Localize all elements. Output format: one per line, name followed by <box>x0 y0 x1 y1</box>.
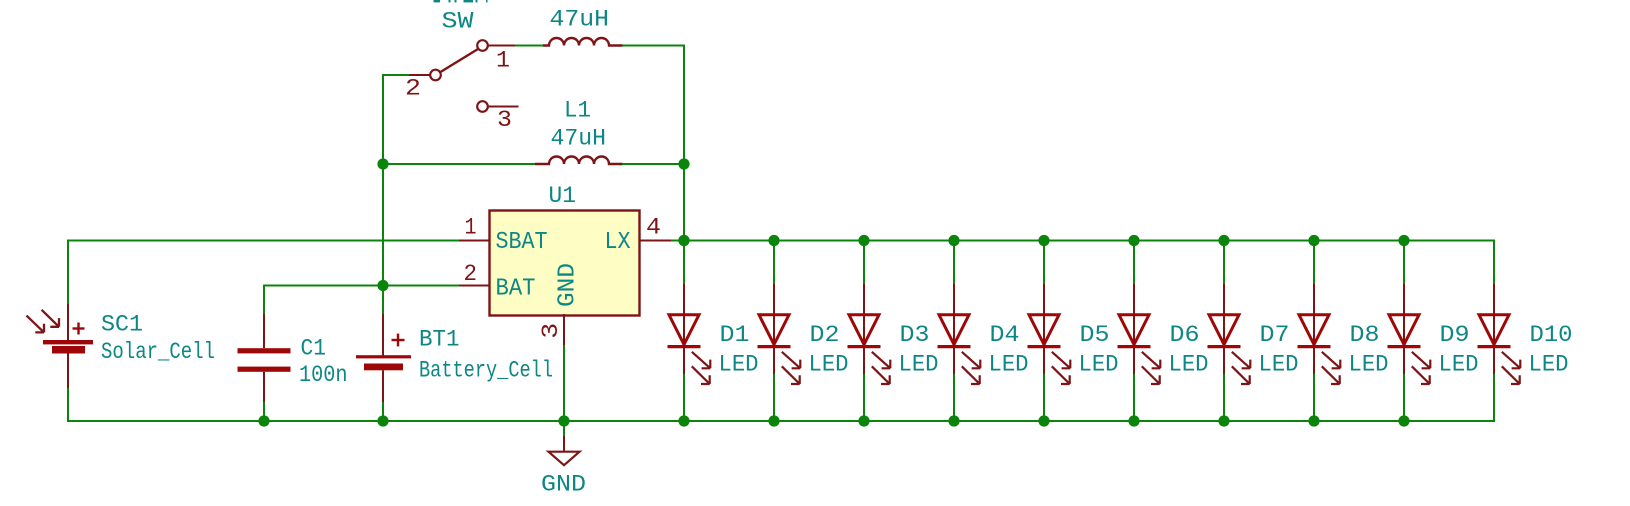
junction at D6 bottom <box>1128 415 1139 426</box>
junction at D9 top <box>1398 235 1409 246</box>
switch SW lever <box>440 49 478 72</box>
svg-text:D3: D3 <box>900 322 930 349</box>
svg-text:1: 1 <box>465 214 477 241</box>
junction at D8 top <box>1308 235 1319 246</box>
svg-text:D6: D6 <box>1170 322 1200 349</box>
svg-text:Solar_Cell: Solar_Cell <box>101 339 215 366</box>
junction at D9 bottom <box>1398 415 1409 426</box>
junction at GND column (564,421) <box>558 415 569 426</box>
wire SW pin1 to top inductor <box>515 45 544 47</box>
switch SW pin 1 stub <box>488 45 517 47</box>
junction at D1 top <box>678 235 689 246</box>
junction at D7 top <box>1218 235 1229 246</box>
wire LED D2 column bottom <box>773 372 775 422</box>
svg-text:BT1: BT1 <box>419 327 460 354</box>
svg-text:LED: LED <box>719 352 759 379</box>
label SW library name (cut off at top) <box>434 0 488 2</box>
svg-text:2: 2 <box>405 75 421 102</box>
wire LED D4 column bottom <box>953 372 955 422</box>
switch SW pin 2 stub <box>409 74 431 76</box>
svg-text:LED: LED <box>1349 352 1389 379</box>
LED D1 <box>668 284 711 384</box>
battery BT1 <box>356 314 411 403</box>
wire LED D7 column bottom <box>1223 372 1225 422</box>
junction at D4 bottom <box>948 415 959 426</box>
wire SBAT (solar cell to U1 pin1) <box>68 240 459 242</box>
wire C1 top (BAT wire down) <box>263 285 265 317</box>
svg-text:D5: D5 <box>1080 322 1110 349</box>
LED D4 <box>938 284 981 384</box>
wire GND stub below rail <box>563 421 565 438</box>
svg-text:SC1: SC1 <box>101 312 143 339</box>
svg-text:D10: D10 <box>1530 322 1573 349</box>
svg-text:Battery_Cell: Battery_Cell <box>419 358 553 385</box>
switch SW pin 3 stub <box>488 106 519 108</box>
wire LED D9 column bottom <box>1403 372 1405 422</box>
wire x=383 vertical (SW pin2 down to BT1) <box>382 74 384 315</box>
inductor L1 47uH <box>535 157 623 164</box>
junction at D6 top <box>1128 235 1139 246</box>
wire U1 pin3 to bottom rail <box>563 345 565 422</box>
wire L1 rail left <box>383 163 536 165</box>
svg-text:L1: L1 <box>564 97 591 124</box>
inductor L2 (top, 47uH) <box>543 38 623 45</box>
wire top inductor to right corner <box>622 45 685 47</box>
svg-text:2: 2 <box>464 261 478 288</box>
wire right edge bottom <box>1493 372 1495 422</box>
wire LED D3 column top <box>863 241 865 287</box>
LED D5 <box>1028 284 1071 384</box>
U1 pin 1 stub (SBAT) <box>459 240 490 242</box>
svg-text:LED: LED <box>899 352 939 379</box>
svg-text:LED: LED <box>1169 352 1209 379</box>
svg-text:GND: GND <box>555 263 582 307</box>
LED D8 <box>1298 284 1341 384</box>
junction at LX node (684,241) <box>678 235 689 246</box>
solar cell SC1 <box>27 304 94 390</box>
svg-text:LED: LED <box>1529 352 1569 379</box>
LED D9 <box>1388 284 1431 384</box>
wire SW pin2 to left drop <box>383 74 411 76</box>
U1 pin 2 stub (BAT) <box>459 285 490 287</box>
wire LED D5 column top <box>1043 241 1045 287</box>
svg-text:3: 3 <box>497 107 512 134</box>
junction at BT1 bottom (383,421) <box>377 415 388 426</box>
wire LED D8 column bottom <box>1313 372 1315 422</box>
LED D10 <box>1478 284 1521 384</box>
svg-text:3: 3 <box>538 323 565 339</box>
svg-text:1: 1 <box>496 48 510 75</box>
LED D3 <box>848 284 891 384</box>
junction at D8 bottom <box>1308 415 1319 426</box>
wire LED D3 column bottom <box>863 372 865 422</box>
svg-text:LED: LED <box>1259 352 1299 379</box>
svg-text:100n: 100n <box>299 362 348 389</box>
junction at L1 right (684,164) <box>678 158 689 169</box>
svg-text:LED: LED <box>809 352 849 379</box>
junction at D1 bottom <box>678 415 689 426</box>
ground symbol GND <box>549 436 580 465</box>
junction at D3 bottom <box>858 415 869 426</box>
wire C1 bottom (to bottom rail) <box>263 402 265 422</box>
wire LED top rail (LX node to right edge) <box>671 240 1495 242</box>
svg-text:C1: C1 <box>301 335 327 362</box>
wire LED D1 column top <box>683 241 685 287</box>
wire x=684 vertical (L1 rail to LX node) <box>683 164 685 241</box>
wire left edge top (SBAT corner down) <box>67 240 69 307</box>
junction at SC1... C1 bottom (264,421) <box>258 415 269 426</box>
svg-text:U1: U1 <box>549 183 577 210</box>
svg-text:SW: SW <box>442 9 475 36</box>
U1 pin 3 stub (GND) <box>563 314 565 346</box>
wire BAT (C1/BT1 to U1 pin2) <box>264 285 459 287</box>
svg-text:47uH: 47uH <box>550 7 610 34</box>
wire right edge top <box>1493 240 1495 287</box>
LED D7 <box>1208 284 1251 384</box>
wire LED D4 column top <box>953 241 955 287</box>
junction at D2 bottom <box>768 415 779 426</box>
svg-text:LED: LED <box>1079 352 1119 379</box>
svg-text:LED: LED <box>989 352 1029 379</box>
LED D2 <box>758 284 801 384</box>
junction at BAT/BT1 (383,285.5) <box>377 280 388 291</box>
wire right vertical (top corner to L1 rail) <box>683 45 685 165</box>
wire bottom rail <box>67 420 1495 422</box>
switch SW pin 1 circle <box>477 40 488 51</box>
svg-text:D7: D7 <box>1260 322 1290 349</box>
svg-text:D8: D8 <box>1350 322 1380 349</box>
capacitor C1 <box>238 314 291 403</box>
wire LED D2 column top <box>773 241 775 287</box>
junction at D2 top <box>768 235 779 246</box>
wire left edge bottom (SC1 to bottom rail) <box>67 388 69 422</box>
U1 pin 4 stub (LX) <box>640 240 672 242</box>
svg-text:BAT: BAT <box>496 275 536 302</box>
svg-text:47uH: 47uH <box>551 126 607 153</box>
wire LED D6 column bottom <box>1133 372 1135 422</box>
op-amp U1 body (IC box) <box>490 211 640 316</box>
wire LED D7 column top <box>1223 241 1225 287</box>
svg-text:4: 4 <box>646 214 661 241</box>
svg-text:D1: D1 <box>720 322 750 349</box>
junction at D3 top <box>858 235 869 246</box>
switch SW pin 3 circle <box>477 101 488 112</box>
wire LED D5 column bottom <box>1043 372 1045 422</box>
wire LED D1 column bottom <box>683 372 685 422</box>
junction at D7 bottom <box>1218 415 1229 426</box>
svg-text:GND: GND <box>541 471 586 498</box>
junction at L1 left (383,164) <box>377 158 388 169</box>
svg-text:LED: LED <box>1439 352 1479 379</box>
wire LED D9 column top <box>1403 241 1405 287</box>
junction at D4 top <box>948 235 959 246</box>
LED D6 <box>1118 284 1161 384</box>
wire L1 rail right <box>622 163 684 165</box>
wire BT1 bottom (to bottom rail) <box>382 402 384 422</box>
junction at D5 bottom <box>1038 415 1049 426</box>
svg-text:SBAT: SBAT <box>496 229 548 256</box>
svg-text:D9: D9 <box>1440 322 1470 349</box>
svg-text:D2: D2 <box>810 322 840 349</box>
svg-text:D4: D4 <box>990 322 1020 349</box>
wire LED D8 column top <box>1313 241 1315 287</box>
switch SW pin 2 circle <box>430 70 441 81</box>
junction at D5 top <box>1038 235 1049 246</box>
wire LED D6 column top <box>1133 241 1135 287</box>
svg-text:LX: LX <box>605 229 631 256</box>
